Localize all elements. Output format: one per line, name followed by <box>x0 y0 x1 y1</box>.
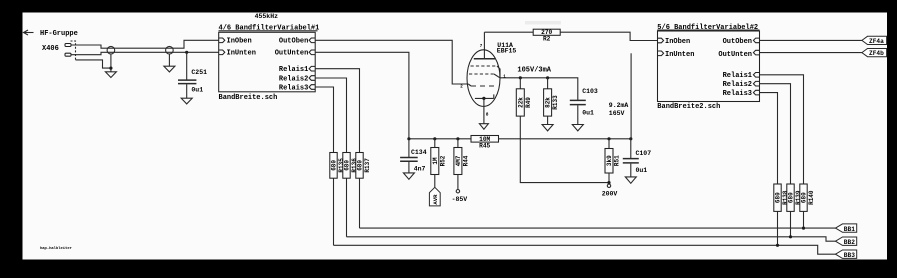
wire bus line BB2 <box>347 237 836 241</box>
svg-text:X406: X406 <box>42 45 59 53</box>
svg-text:BandBreite2.sch: BandBreite2.sch <box>657 103 720 111</box>
node R49 top <box>519 76 522 79</box>
node R133 top <box>546 76 549 79</box>
svg-text:680: 680 <box>330 160 337 171</box>
svg-text:455kHz: 455kHz <box>255 13 279 20</box>
wire R139 down to BB2 <box>790 211 792 236</box>
svg-text:InOben: InOben <box>227 38 252 46</box>
pin box1 InUnten <box>219 50 256 58</box>
svg-text:680: 680 <box>356 160 363 171</box>
terminal 200V <box>602 184 618 197</box>
pin box2 InOben <box>658 38 691 46</box>
svg-text:0u1: 0u1 <box>582 109 594 116</box>
resistor R2 270 <box>533 29 560 42</box>
tube anode supply wire to R2 <box>484 31 533 33</box>
wire anode lead <box>483 32 485 59</box>
wire circle1 down to ground <box>110 54 112 72</box>
svg-text:R45: R45 <box>479 142 490 149</box>
resistor R138 680 <box>774 184 789 211</box>
svg-text:R133: R133 <box>552 95 559 110</box>
pin box1 OutUnten <box>275 50 316 58</box>
net flag BB2 <box>836 237 857 246</box>
svg-text:1M: 1M <box>432 157 439 165</box>
wire bus line BB3 <box>334 245 836 254</box>
net flag ZF4b <box>862 49 887 58</box>
ground under R133 <box>542 125 553 131</box>
svg-text:0u1: 0u1 <box>636 167 648 174</box>
label 9.2mA 165V <box>609 102 629 117</box>
svg-text:9.2mA: 9.2mA <box>609 102 629 109</box>
svg-text:Relais1: Relais1 <box>279 66 308 74</box>
wire grid line right <box>499 138 631 140</box>
svg-text:C134: C134 <box>411 149 427 156</box>
wire R44 to -85V terminal <box>457 175 459 190</box>
net flag BB3 <box>836 250 857 259</box>
wire shield to ground junction <box>76 60 111 68</box>
capacitor C103 <box>570 88 598 117</box>
wire node to R52 <box>434 139 436 148</box>
svg-text:OutOben: OutOben <box>279 38 308 46</box>
pin box1 Relais2 <box>279 75 315 83</box>
net flag BB1 <box>836 224 857 233</box>
svg-text:ZF4a: ZF4a <box>869 38 884 45</box>
pin box2 Relais3 <box>723 90 760 98</box>
wire C107 to ground <box>630 164 632 177</box>
svg-text:OutUnten: OutUnten <box>275 50 309 58</box>
connector X406 dashed body bracket <box>71 41 76 60</box>
svg-text:BB1: BB1 <box>844 226 855 233</box>
ground under C107 <box>625 177 636 183</box>
pin box1 InOben <box>219 38 252 46</box>
wire node to C134 <box>408 139 410 157</box>
wire R2 to box2 InOben <box>560 32 657 40</box>
svg-text:4/6 BandfilterVariabel#1: 4/6 BandfilterVariabel#1 <box>219 25 320 33</box>
svg-text:C251: C251 <box>191 69 207 76</box>
svg-text:InUnten: InUnten <box>665 51 694 59</box>
ground under circle1 <box>105 72 116 78</box>
svg-text:BB3: BB3 <box>844 252 855 259</box>
connector X406 pin 2 pad <box>65 53 71 56</box>
wire box2 Relais2 to R139 <box>760 84 791 184</box>
resistor R51 3k9 <box>605 149 621 174</box>
node C251 tap <box>185 51 188 54</box>
capacitor C134 4n7 <box>400 149 427 173</box>
svg-text:C107: C107 <box>636 150 652 157</box>
cable pass-through circle 2 <box>166 46 174 54</box>
wire box2 Relais1 to R140 <box>760 75 804 184</box>
node BB2 junction <box>789 235 792 238</box>
wire R133 to ground <box>547 116 549 124</box>
resistor R135 680 <box>330 153 345 179</box>
wire box2 OutOben to ZF4a <box>760 39 862 41</box>
wire circle2 down to ground <box>168 54 170 66</box>
svg-text:105V/3mA: 105V/3mA <box>517 66 551 74</box>
wire box1 Relais3 to R135 <box>315 87 333 153</box>
svg-text:BandBreite.sch: BandBreite.sch <box>219 94 278 102</box>
node R51 top <box>607 137 610 140</box>
sheet box U2 5/6 BandfilterVariabel#2 <box>657 24 759 111</box>
pin box2 OutOben <box>723 38 760 46</box>
pin box2 OutUnten <box>718 50 759 59</box>
svg-text:4M7: 4M7 <box>455 155 462 166</box>
svg-text:680: 680 <box>343 160 350 171</box>
connector X406 pin 1 pad <box>65 44 71 47</box>
capacitor C107 <box>623 150 651 174</box>
svg-text:R137: R137 <box>364 158 371 173</box>
tube U11A EBF15 <box>460 42 516 118</box>
wire R138 down to BB3 <box>777 211 779 245</box>
svg-text:AVR: AVR <box>432 194 439 205</box>
resistor R45 10M <box>471 136 499 150</box>
wire anode line to R133 <box>547 78 549 89</box>
wire box2 OutUnten to ZF4b <box>760 52 862 54</box>
svg-text:R51: R51 <box>614 155 621 166</box>
wire pin2 to bottom bus into box1 InUnten <box>71 52 219 54</box>
svg-text:EBF15: EBF15 <box>497 47 517 54</box>
svg-text:8: 8 <box>486 112 489 118</box>
svg-text:R140: R140 <box>808 190 815 205</box>
pin box2 Relais1 <box>723 72 760 80</box>
svg-text:ZF4b: ZF4b <box>869 50 884 57</box>
svg-text:R44: R44 <box>462 155 469 166</box>
svg-text:C103: C103 <box>582 88 598 95</box>
wire box1 Relais2 to R136 <box>315 78 346 153</box>
terminal -85V <box>452 190 468 204</box>
svg-text:680: 680 <box>787 192 794 203</box>
wire R137 to bus BB1 <box>359 178 361 228</box>
node BB1 junction <box>802 227 805 230</box>
wire box2 Relais3 to R138 <box>760 93 778 184</box>
svg-text:OutOben: OutOben <box>723 38 752 46</box>
wire box1 OutOben to tube grid pin2 <box>315 40 468 84</box>
svg-text:Relais2: Relais2 <box>279 75 308 83</box>
wire node to C107 <box>630 139 632 158</box>
label HF-Gruppe with arrow <box>24 30 78 38</box>
svg-text:R49: R49 <box>525 97 532 108</box>
svg-text:InUnten: InUnten <box>227 50 256 58</box>
net flag ZF4a <box>862 36 887 45</box>
svg-text:InOben: InOben <box>665 38 690 46</box>
node grid line right end <box>629 137 632 140</box>
wire node to R44 <box>457 139 459 148</box>
svg-text:200V: 200V <box>602 190 618 197</box>
wire anode line to R49 <box>519 78 521 89</box>
wire pin1 to top bus into box1 InOben <box>71 40 219 48</box>
svg-text:4n7: 4n7 <box>414 166 426 173</box>
node grid line left end <box>407 137 410 140</box>
pin box2 InUnten <box>658 51 695 59</box>
svg-text:165V: 165V <box>609 110 625 117</box>
wire R140 down to BB1 <box>803 211 805 228</box>
pin box2 Relais2 <box>723 81 760 89</box>
wire C134 to ground <box>408 162 410 173</box>
wire anode node line <box>500 78 578 100</box>
resistor R133 82k <box>544 89 560 116</box>
resistor R140 680 <box>800 184 815 211</box>
svg-text:0u1: 0u1 <box>191 86 203 93</box>
node shield ground junction <box>109 67 112 70</box>
svg-text:-85V: -85V <box>452 196 468 203</box>
node BB3 junction <box>776 244 779 247</box>
wire box2 InUnten down to grid line <box>630 53 632 139</box>
pin box1 Relais1 <box>279 66 315 74</box>
cable pass-through circle 1 <box>107 46 115 54</box>
node 200V junction <box>607 181 610 184</box>
svg-text:OutUnten: OutUnten <box>718 51 752 59</box>
wire node to R51 <box>608 139 610 149</box>
ground under C134 <box>403 173 414 179</box>
svg-text:R52: R52 <box>439 155 446 166</box>
ground under C251 <box>181 98 192 104</box>
pin box1 OutOben <box>279 38 315 46</box>
wire R51 bottom <box>608 173 610 184</box>
svg-text:BB2: BB2 <box>844 239 855 246</box>
wire R136 to bus BB2 <box>346 178 348 237</box>
resistor R137 680 <box>356 153 371 179</box>
svg-text:HF-Gruppe: HF-Gruppe <box>40 30 78 38</box>
wire R52 to AVR flag <box>434 175 436 188</box>
wire R49 bottom to 200V node <box>520 116 609 183</box>
svg-text:22k: 22k <box>517 97 524 108</box>
node R44 top <box>456 137 459 140</box>
wire grid line left <box>409 138 471 140</box>
svg-text:82k: 82k <box>545 97 552 108</box>
wire bus to C251 <box>186 52 188 79</box>
ground under C103 <box>572 125 583 131</box>
sheet box U1 4/6 BandfilterVariabel#1 <box>219 25 320 102</box>
wire cathode to ground <box>483 98 485 123</box>
svg-text:Relais1: Relais1 <box>723 72 752 80</box>
svg-text:R2: R2 <box>543 36 551 43</box>
pin box1 Relais3 <box>279 84 315 92</box>
resistor R49 22k <box>516 89 532 116</box>
svg-text:Relais3: Relais3 <box>723 90 752 98</box>
svg-text:hap-halbleiter: hap-halbleiter <box>40 246 72 251</box>
ground under tube cathode <box>479 124 488 130</box>
ground under circle2 <box>164 66 175 72</box>
wire C103 to ground <box>577 105 579 124</box>
svg-text:Relais3: Relais3 <box>279 84 308 92</box>
svg-text:Relais2: Relais2 <box>723 81 752 89</box>
svg-text:680: 680 <box>800 192 807 203</box>
node R52 top <box>433 137 436 140</box>
net flag AVR <box>429 187 440 206</box>
faint smudge above R2 <box>525 21 561 25</box>
resistor R139 680 <box>787 184 802 211</box>
wire R135 to bus BB3 <box>333 178 335 245</box>
wire box1 OutUnten down to grid line <box>315 52 409 139</box>
svg-text:3k9: 3k9 <box>606 155 613 166</box>
resistor R44 4M7 <box>454 148 470 175</box>
wire bus line BB1 <box>360 227 836 229</box>
resistor R52 1M <box>431 148 447 175</box>
wire box1 Relais1 to R137 <box>315 69 359 153</box>
svg-text:680: 680 <box>774 192 781 203</box>
resistor R136 680 <box>343 153 358 179</box>
capacitor C251 <box>178 69 207 93</box>
wire C251 to ground <box>186 84 188 98</box>
